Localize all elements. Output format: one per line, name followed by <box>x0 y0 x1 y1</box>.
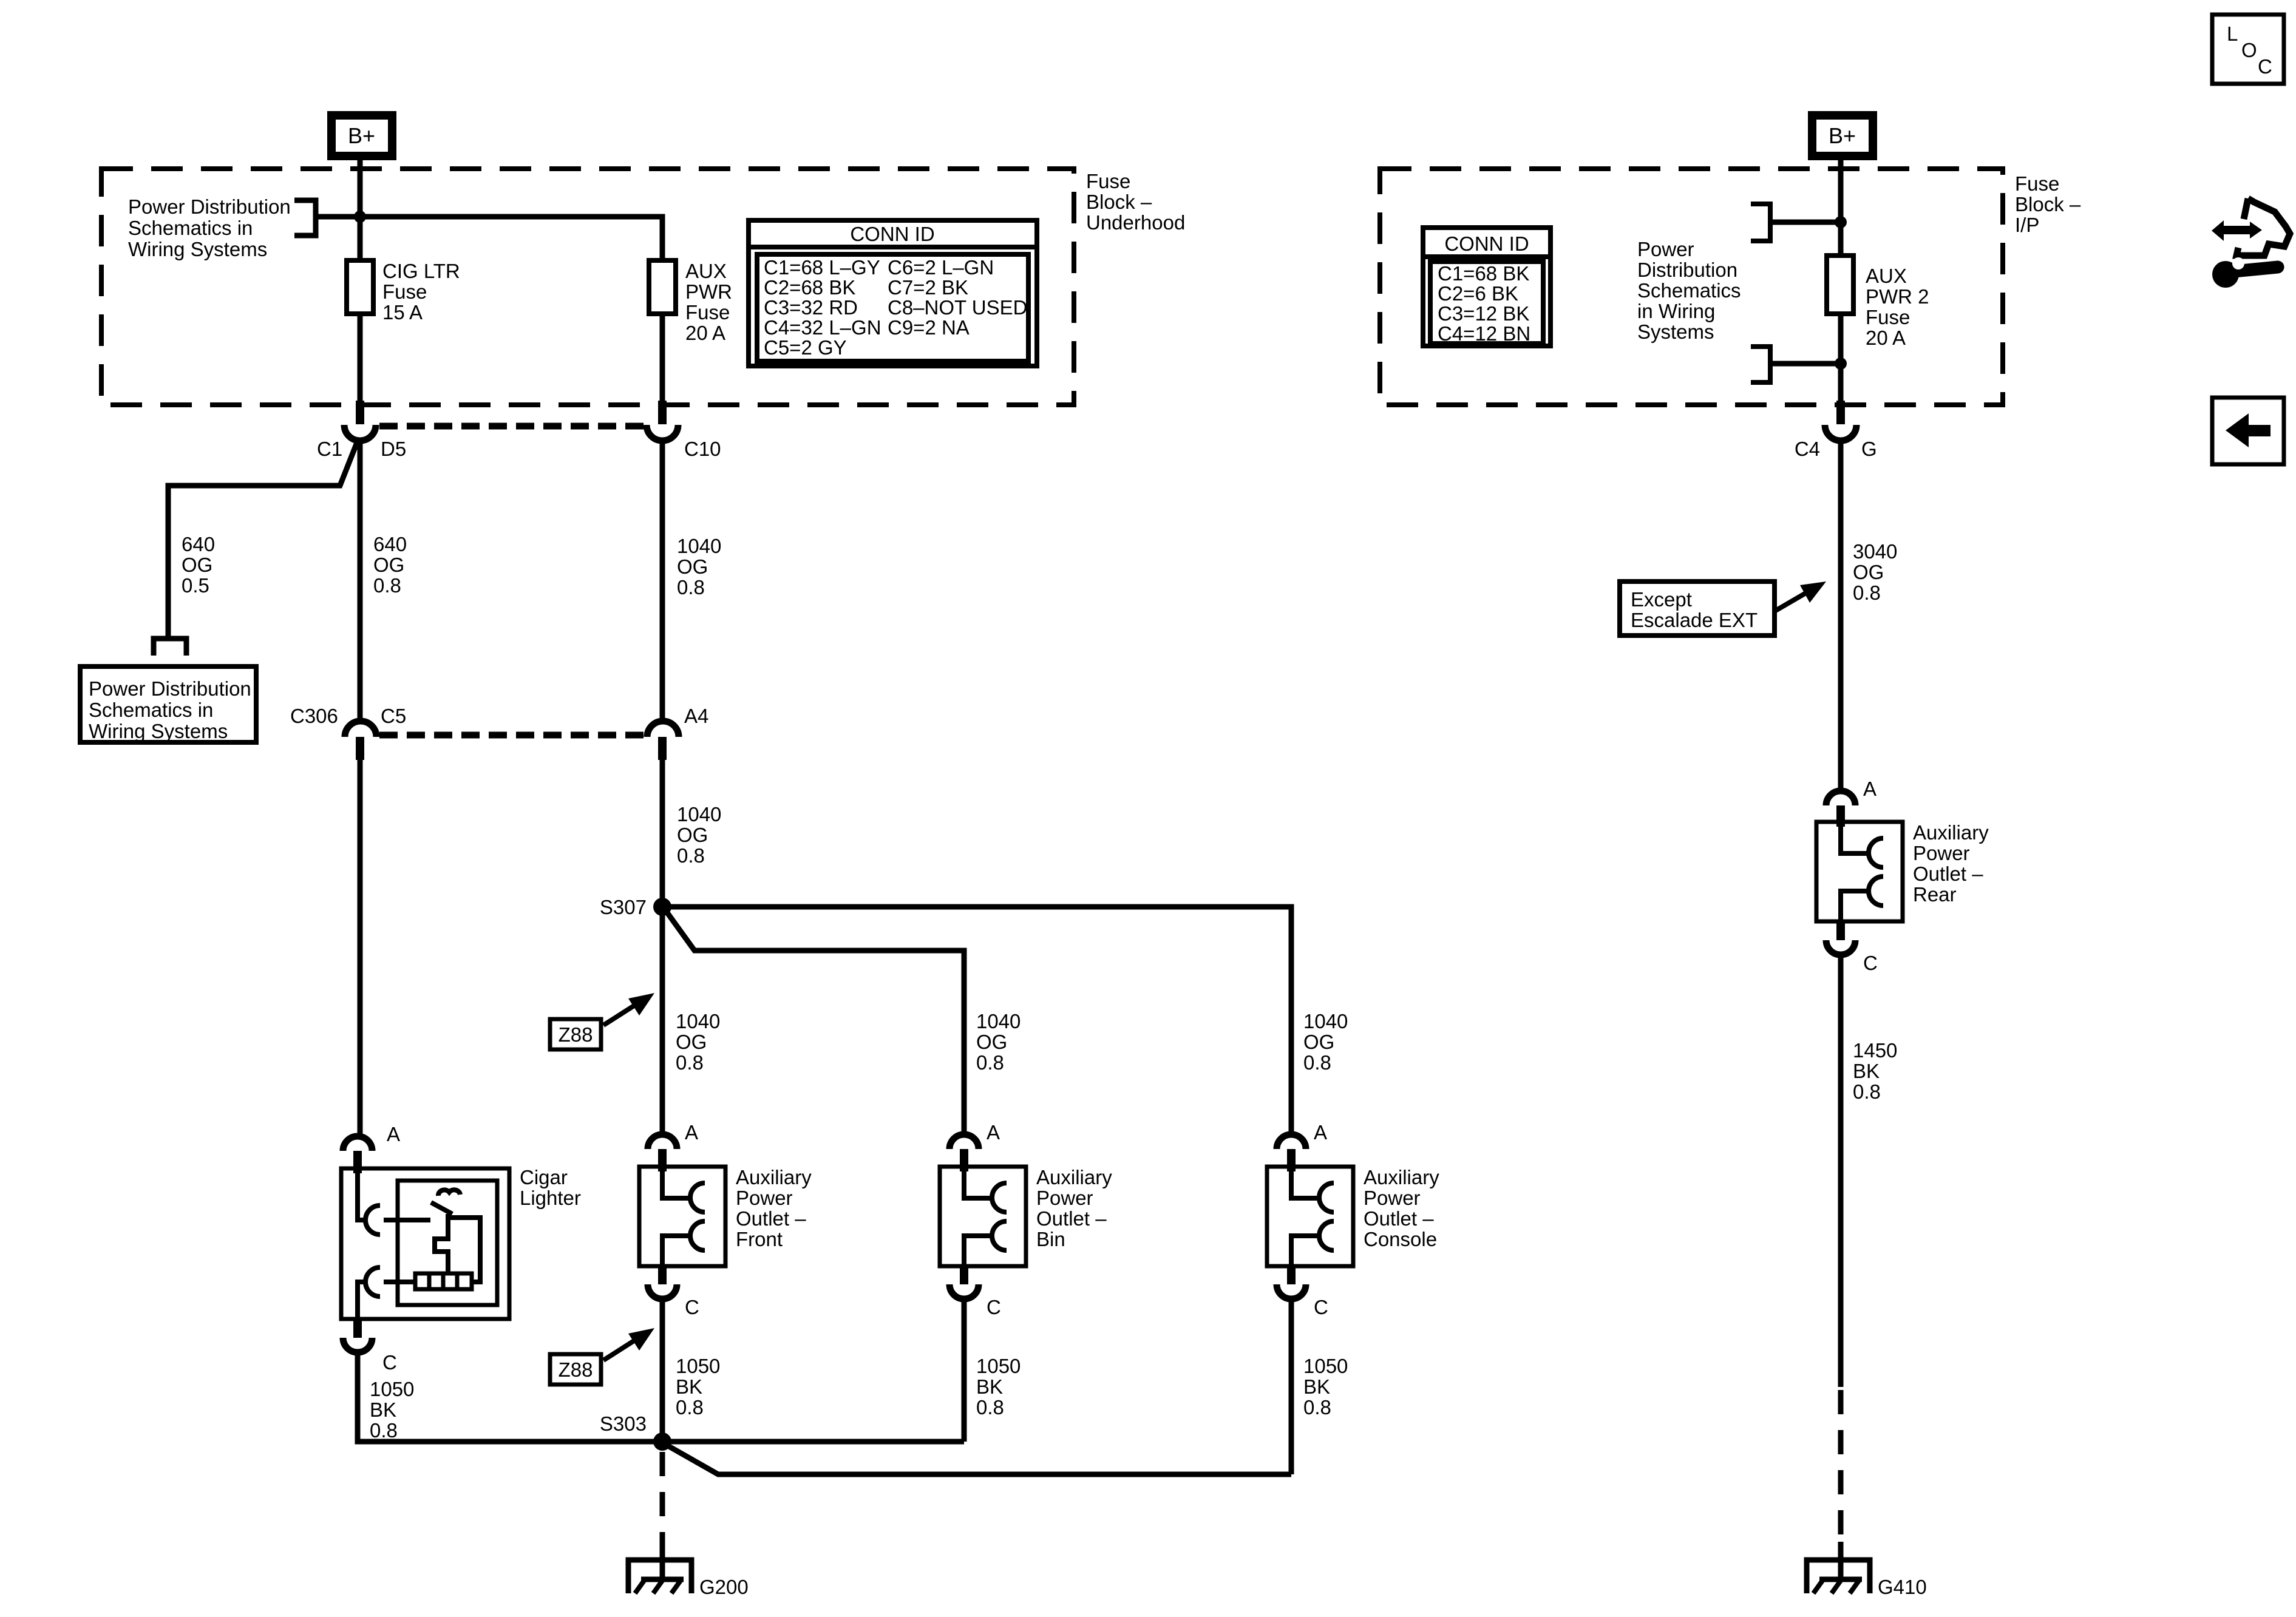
wire S307 down to front outlet <box>660 907 665 1134</box>
connector C cup (cigar) <box>343 1338 372 1352</box>
fuse CIG LTR 15A <box>347 260 373 314</box>
svg-text:C3=32 RD: C3=32 RD <box>764 296 858 319</box>
cigar upper feed line <box>384 1218 430 1222</box>
cigar lighter outer box <box>341 1168 509 1319</box>
auxiliary power outlet front box <box>639 1167 725 1266</box>
svg-text:Power Distribution: Power Distribution <box>128 195 291 218</box>
svg-text:A: A <box>685 1121 698 1144</box>
svg-text:C: C <box>987 1296 1001 1318</box>
fuse AUX PWR 20A <box>649 260 676 314</box>
label Auxiliary Power Outlet - Bin <box>1036 1166 1112 1250</box>
svg-text:BK: BK <box>1303 1375 1330 1398</box>
connector A4 cap <box>647 721 679 737</box>
wire console return to S303 <box>665 1444 1291 1474</box>
svg-text:A4: A4 <box>684 705 708 727</box>
svg-text:Lighter: Lighter <box>520 1187 581 1209</box>
wire bracket to junction lower <box>1770 361 1841 367</box>
svg-text:OG: OG <box>373 554 404 576</box>
Except Escalade EXT box <box>1620 581 1775 636</box>
pin into C4 <box>1836 401 1845 424</box>
label Power Distribution Schematics in Wiring Systems (top left) <box>128 195 291 260</box>
label 1050 BK 0.8 (front) <box>676 1355 720 1419</box>
cigar switch blade <box>431 1202 452 1214</box>
svg-text:Outlet –: Outlet – <box>736 1207 806 1230</box>
svg-text:OG: OG <box>676 1031 707 1053</box>
svg-text:A: A <box>987 1121 1000 1144</box>
connector C10 cup <box>647 425 678 441</box>
label Auxiliary Power Outlet - Console <box>1364 1166 1439 1250</box>
svg-text:Fuse: Fuse <box>1086 170 1130 192</box>
wire S307 to bin column <box>665 909 964 1134</box>
Z88 callout box (upper) <box>550 1019 601 1049</box>
svg-text:Power: Power <box>1036 1187 1093 1209</box>
svg-text:CIG LTR: CIG LTR <box>382 260 460 282</box>
svg-text:G410: G410 <box>1878 1576 1927 1598</box>
svg-text:C2=6 BK: C2=6 BK <box>1438 282 1518 305</box>
svg-text:C4=32 L–GN: C4=32 L–GN <box>764 316 881 339</box>
pin C console <box>1287 1266 1296 1284</box>
svg-text:C1=68 L–GY: C1=68 L–GY <box>764 256 880 279</box>
svg-text:AUX: AUX <box>685 260 727 282</box>
svg-text:0.8: 0.8 <box>676 1396 704 1419</box>
pin below A4 <box>658 737 667 760</box>
svg-text:20 A: 20 A <box>685 322 725 344</box>
svg-text:OG: OG <box>976 1031 1007 1053</box>
svg-text:Outlet –: Outlet – <box>1364 1207 1434 1230</box>
wire fuse to connector C1 <box>358 314 363 405</box>
svg-text:3040: 3040 <box>1853 540 1897 563</box>
svg-text:1040: 1040 <box>677 535 721 557</box>
svg-text:Schematics in: Schematics in <box>128 217 253 239</box>
svg-text:CONN ID: CONN ID <box>1444 232 1529 255</box>
svg-text:0.8: 0.8 <box>1303 1396 1331 1419</box>
svg-text:Rear: Rear <box>1913 883 1957 906</box>
svg-text:Power: Power <box>1913 842 1970 864</box>
arrow Except to wire <box>1775 581 1826 611</box>
svg-text:in Wiring: in Wiring <box>1637 300 1715 322</box>
svg-text:C: C <box>1314 1296 1328 1318</box>
svg-text:BK: BK <box>1853 1060 1880 1082</box>
svg-text:B+: B+ <box>1829 123 1856 148</box>
cigar lower contact arc <box>365 1267 380 1297</box>
svg-text:Fuse: Fuse <box>685 301 730 324</box>
connector C cup (rear) <box>1826 940 1855 955</box>
svg-text:O: O <box>2241 39 2257 61</box>
Power Distribution Schematics box (left mid) <box>80 666 256 742</box>
svg-text:Z88: Z88 <box>559 1023 593 1046</box>
connector C cup (front) <box>648 1284 677 1299</box>
harness repair icon <box>2212 198 2290 288</box>
ground G200 <box>628 1542 691 1593</box>
svg-text:C: C <box>382 1351 397 1374</box>
svg-text:BK: BK <box>976 1375 1003 1398</box>
label 1040 OG 0.8 (front) <box>676 1010 720 1074</box>
svg-text:A: A <box>1863 778 1877 800</box>
label 3040 OG 0.8 <box>1853 540 1897 604</box>
pin A bin <box>960 1149 968 1171</box>
pin C cigar <box>353 1319 362 1338</box>
connector A cap (console outlet) <box>1277 1134 1306 1149</box>
svg-text:1040: 1040 <box>676 1010 720 1032</box>
svg-text:0.8: 0.8 <box>677 844 705 867</box>
svg-text:C9=2 NA: C9=2 NA <box>888 316 970 339</box>
stub bracket lower <box>1751 347 1770 382</box>
svg-text:G200: G200 <box>699 1576 749 1598</box>
label CIG LTR Fuse 15 A <box>382 260 460 324</box>
junction dot upper <box>1835 216 1847 228</box>
Z88 callout box (lower) <box>550 1354 601 1385</box>
pin A rear <box>1836 805 1845 827</box>
junction dot lower <box>1835 358 1847 370</box>
pin C bin <box>960 1266 968 1284</box>
svg-text:Fuse: Fuse <box>382 280 427 303</box>
svg-text:1450: 1450 <box>1853 1039 1897 1062</box>
svg-text:0.8: 0.8 <box>677 576 705 598</box>
svg-text:1050: 1050 <box>976 1355 1021 1377</box>
svg-text:C: C <box>685 1296 699 1318</box>
connector A cap (rear outlet) <box>1826 791 1855 805</box>
svg-text:OG: OG <box>677 824 708 846</box>
cigar lighter inner box <box>398 1181 497 1305</box>
svg-text:G: G <box>1861 438 1877 460</box>
label 640 OG 0.5 <box>182 533 215 597</box>
svg-text:Outlet –: Outlet – <box>1913 863 1983 885</box>
svg-text:Wiring Systems: Wiring Systems <box>128 238 267 260</box>
svg-text:OG: OG <box>677 555 708 578</box>
wire branch diagonal to off-page <box>168 439 358 637</box>
svg-text:Power: Power <box>736 1187 793 1209</box>
svg-text:1050: 1050 <box>370 1378 414 1400</box>
cigar lower feed line <box>384 1280 415 1284</box>
svg-text:0.8: 0.8 <box>1853 581 1881 604</box>
svg-text:D5: D5 <box>381 438 406 460</box>
connector C cup (bin) <box>949 1284 979 1299</box>
svg-text:PWR 2: PWR 2 <box>1866 285 1929 308</box>
wire B+ down through fuse <box>1838 158 1844 258</box>
svg-text:Fuse: Fuse <box>1866 306 1910 328</box>
pin below C5 <box>356 737 364 760</box>
svg-text:I/P: I/P <box>2015 214 2039 236</box>
svg-text:20 A: 20 A <box>1866 327 1906 349</box>
svg-text:Bin: Bin <box>1036 1228 1065 1250</box>
svg-text:1040: 1040 <box>677 803 721 825</box>
svg-text:CONN ID: CONN ID <box>850 223 934 245</box>
svg-text:OG: OG <box>1303 1031 1334 1053</box>
svg-text:BK: BK <box>676 1375 702 1398</box>
svg-text:C5: C5 <box>381 705 406 727</box>
svg-text:C4: C4 <box>1795 438 1820 460</box>
wire C10 down to A4 <box>660 441 665 720</box>
connector C4 cup <box>1825 425 1856 441</box>
label Fuse Block - Underhood <box>1086 170 1185 234</box>
wire junction horizontal to AUX PWR fuse <box>316 217 662 263</box>
wire C5 down to cigar A <box>358 760 363 1136</box>
wire console C down to lower return line <box>1289 1299 1294 1474</box>
svg-text:Block –: Block – <box>1086 191 1152 213</box>
svg-text:Z88: Z88 <box>559 1358 593 1381</box>
svg-text:Power Distribution: Power Distribution <box>89 677 251 700</box>
fuse block I/P dashed box <box>1380 169 2003 405</box>
label AUX PWR Fuse 20 A <box>685 260 732 344</box>
connector A cap (bin outlet) <box>949 1134 979 1149</box>
pin A cigar <box>353 1151 362 1173</box>
svg-text:C7=2 BK: C7=2 BK <box>888 276 968 299</box>
B+ terminal box (left) <box>331 115 392 156</box>
svg-text:Power: Power <box>1364 1187 1421 1209</box>
wire cigar C to S303 to bin <box>358 1352 964 1442</box>
Z88 arrow (upper) <box>603 993 654 1025</box>
svg-text:640: 640 <box>182 533 215 555</box>
dashed wire S303 to G200 <box>660 1452 665 1545</box>
label Cigar Lighter <box>520 1166 581 1209</box>
svg-text:Front: Front <box>736 1228 783 1250</box>
back arrow icon box <box>2212 398 2284 464</box>
label AUX PWR 2 Fuse 20 A <box>1866 265 1929 349</box>
ground G410 <box>1807 1542 1870 1593</box>
connector C306/C5 cap <box>345 721 376 737</box>
label 1040 OG 0.8 (top) <box>677 535 721 598</box>
CONN ID table (left) <box>749 220 1037 366</box>
svg-text:640: 640 <box>373 533 407 555</box>
label 1450 BK 0.8 <box>1853 1039 1897 1103</box>
cigar element jog <box>435 1214 448 1273</box>
wire C4 down to rear outlet A <box>1838 441 1844 791</box>
auxiliary power outlet console box <box>1267 1167 1353 1266</box>
label Auxiliary Power Outlet - Front <box>736 1166 812 1250</box>
stub bracket upper <box>1751 204 1770 241</box>
label 1040 OG 0.8 (below A4) <box>677 803 721 867</box>
svg-text:BK: BK <box>370 1398 396 1421</box>
svg-text:S307: S307 <box>600 896 647 918</box>
wire fuse to connector C10 <box>660 314 665 405</box>
svg-text:C1=68 BK: C1=68 BK <box>1438 262 1529 285</box>
svg-text:S303: S303 <box>600 1412 647 1435</box>
connector C cup (console) <box>1277 1284 1306 1299</box>
wire bin C down to S303 line <box>962 1299 967 1442</box>
svg-text:AUX: AUX <box>1866 265 1907 287</box>
svg-text:1040: 1040 <box>1303 1010 1348 1032</box>
svg-text:C: C <box>2258 55 2272 78</box>
svg-text:Schematics in: Schematics in <box>89 699 213 721</box>
svg-text:C8–NOT USED: C8–NOT USED <box>888 296 1027 319</box>
svg-text:Distribution: Distribution <box>1637 259 1737 281</box>
callout bracket to wire <box>294 200 316 236</box>
svg-text:0.8: 0.8 <box>976 1051 1004 1074</box>
fuse AUX PWR 2 20A <box>1827 256 1853 314</box>
wire bracket to junction upper <box>1770 220 1841 225</box>
B+ terminal box (right) <box>1812 115 1873 156</box>
svg-text:C: C <box>1863 952 1878 974</box>
svg-text:C306: C306 <box>290 705 338 727</box>
svg-text:C3=12 BK: C3=12 BK <box>1438 302 1529 325</box>
off-page connector symbol <box>154 639 186 656</box>
svg-text:Escalade EXT: Escalade EXT <box>1631 609 1758 631</box>
pin C front <box>658 1266 667 1284</box>
cigar resistor block <box>415 1273 472 1289</box>
label 1040 OG 0.8 (bin) <box>976 1010 1021 1074</box>
label Power Distribution Schematics in Wiring Systems (right) <box>1637 238 1741 343</box>
pin A front <box>658 1149 667 1171</box>
svg-text:0.8: 0.8 <box>976 1396 1004 1419</box>
label Auxiliary Power Outlet - Rear <box>1913 821 1989 906</box>
svg-text:OG: OG <box>1853 561 1884 583</box>
label Fuse Block - I/P <box>2015 172 2081 236</box>
connector A cap (cigar) <box>343 1136 372 1151</box>
connector C1 cup <box>344 425 376 441</box>
wire C1 down to C306 <box>358 441 363 720</box>
svg-text:Power: Power <box>1637 238 1694 260</box>
svg-text:Auxiliary: Auxiliary <box>1036 1166 1112 1188</box>
svg-text:L: L <box>2227 22 2238 45</box>
label 1050 BK 0.8 (console) <box>1303 1355 1348 1419</box>
svg-text:B+: B+ <box>348 123 375 148</box>
svg-text:Auxiliary: Auxiliary <box>1364 1166 1439 1188</box>
cigar lower contact wire <box>358 1282 364 1317</box>
svg-text:Auxiliary: Auxiliary <box>1913 821 1989 844</box>
svg-text:A: A <box>387 1123 400 1145</box>
dashed connector pair line C1-C10 <box>379 423 645 430</box>
label 640 OG 0.8 <box>373 533 407 597</box>
cigar switch to right rail <box>448 1218 480 1282</box>
svg-text:C6=2 L–GN: C6=2 L–GN <box>888 256 994 279</box>
auxiliary power outlet bin box <box>940 1167 1026 1266</box>
svg-text:Systems: Systems <box>1637 320 1714 343</box>
cigar heater curl <box>438 1190 460 1196</box>
svg-text:Console: Console <box>1364 1228 1437 1250</box>
svg-text:1050: 1050 <box>676 1355 720 1377</box>
svg-text:0.8: 0.8 <box>373 574 401 597</box>
splice S307 dot <box>653 898 671 916</box>
svg-text:Outlet –: Outlet – <box>1036 1207 1107 1230</box>
junction dot at B+ wire <box>354 211 366 223</box>
wire rear C down <box>1838 955 1844 1387</box>
label 1050 BK 0.8 (bin) <box>976 1355 1021 1419</box>
svg-text:Schematics: Schematics <box>1637 279 1741 302</box>
svg-text:0.5: 0.5 <box>182 574 209 597</box>
svg-text:C2=68 BK: C2=68 BK <box>764 276 855 299</box>
fuse block underhood dashed box <box>101 169 1074 405</box>
svg-text:C5=2 GY: C5=2 GY <box>764 336 847 359</box>
svg-text:Wiring Systems: Wiring Systems <box>89 720 228 742</box>
svg-text:Underhood: Underhood <box>1086 211 1185 234</box>
CONN ID table (right) <box>1423 228 1550 346</box>
pin A console <box>1287 1149 1296 1171</box>
splice S303 dot <box>653 1432 671 1451</box>
pin into C10 <box>658 401 667 424</box>
dashed wire to G410 <box>1838 1390 1844 1545</box>
svg-text:Block –: Block – <box>2015 193 2081 215</box>
auxiliary power outlet rear box <box>1816 822 1903 921</box>
dashed connector pair line C5-A4 <box>379 732 645 739</box>
wire fuse to C4 <box>1838 314 1844 405</box>
svg-text:0.8: 0.8 <box>1303 1051 1331 1074</box>
wire S307 to console column <box>662 907 1291 1134</box>
wire B+ down to CIG LTR fuse <box>358 158 363 263</box>
connector A cap (front outlet) <box>648 1134 677 1149</box>
svg-text:15 A: 15 A <box>382 301 423 324</box>
svg-text:0.8: 0.8 <box>1853 1080 1881 1103</box>
svg-text:C4=12 BN: C4=12 BN <box>1438 322 1530 345</box>
wire A4 down to S307 <box>660 760 665 907</box>
svg-text:0.8: 0.8 <box>370 1419 398 1442</box>
svg-text:C10: C10 <box>684 438 721 460</box>
Z88 arrow (lower) <box>603 1328 654 1360</box>
svg-text:OG: OG <box>182 554 212 576</box>
svg-text:C1: C1 <box>317 438 342 460</box>
label 1050 BK 0.8 (cigar) <box>370 1378 414 1442</box>
svg-text:A: A <box>1314 1121 1327 1144</box>
svg-text:0.8: 0.8 <box>676 1051 704 1074</box>
LOC icon box <box>2212 15 2284 84</box>
cigar upper contact wire <box>358 1171 364 1220</box>
pin C rear <box>1836 921 1845 940</box>
svg-text:PWR: PWR <box>685 280 732 303</box>
svg-text:1040: 1040 <box>976 1010 1021 1032</box>
svg-text:Auxiliary: Auxiliary <box>736 1166 812 1188</box>
svg-text:Except: Except <box>1631 588 1692 611</box>
wire front C down to S303 <box>660 1299 665 1442</box>
svg-text:1050: 1050 <box>1303 1355 1348 1377</box>
svg-text:Fuse: Fuse <box>2015 172 2059 195</box>
pin into C1 <box>356 401 364 424</box>
svg-text:Cigar: Cigar <box>520 1166 568 1188</box>
label 1040 OG 0.8 (console) <box>1303 1010 1348 1074</box>
cigar upper contact arc <box>365 1205 380 1235</box>
